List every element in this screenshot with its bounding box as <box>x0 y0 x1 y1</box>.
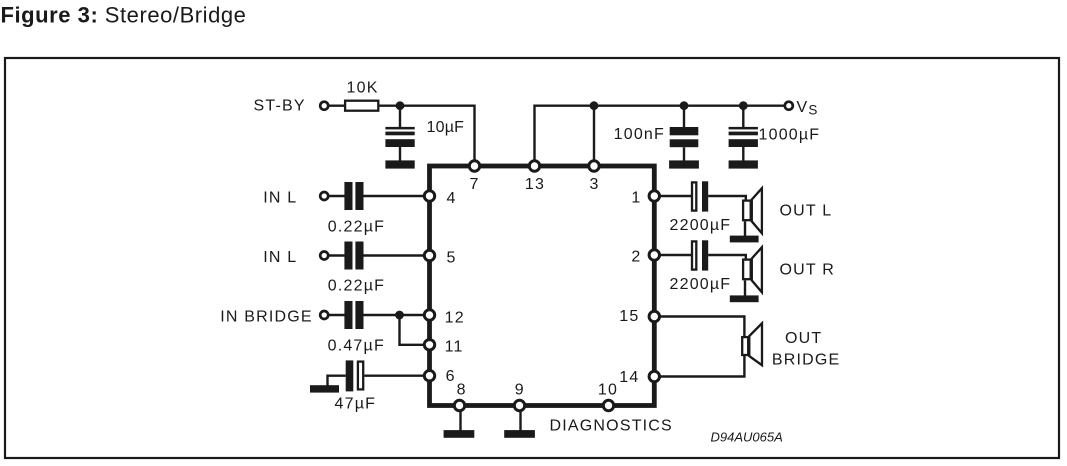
svg-text:13: 13 <box>525 176 545 193</box>
svg-text:D94AU065A: D94AU065A <box>711 430 783 445</box>
svg-text:OUT R: OUT R <box>780 262 835 279</box>
terminal IN BRIDGE <box>320 311 328 319</box>
capacitor 2200uF (OUT L) <box>692 182 696 210</box>
wire junction to pin 11 <box>400 315 426 345</box>
pin 11 <box>424 340 434 350</box>
svg-text:10: 10 <box>598 381 618 398</box>
wire 47uF to pin 6 <box>364 375 425 377</box>
capacitor 1000uF <box>729 127 758 129</box>
wire 1000uF to ground <box>742 147 744 161</box>
svg-text:8: 8 <box>457 382 467 399</box>
wire pin 13 to rail <box>535 106 595 166</box>
junction rail / 100nF <box>680 101 689 110</box>
ground speaker OUT R <box>730 295 759 302</box>
wire pin 15 to bridge speaker <box>659 317 744 337</box>
capacitor 2200uF (OUT R) <box>692 241 696 269</box>
wire pin 2 to cap <box>659 254 691 256</box>
svg-text:4: 4 <box>447 190 457 207</box>
pin 14 <box>649 371 659 381</box>
ground pin 9 <box>504 430 535 438</box>
wire speaker OUT L to ground <box>744 221 746 236</box>
wire IN BRIDGE to cap <box>328 314 345 316</box>
pin 10 <box>603 400 613 410</box>
ground 10uF <box>385 160 414 168</box>
wire pin 9 to ground <box>519 410 521 431</box>
wire pin 8 to ground <box>459 410 461 431</box>
svg-text:2200µF: 2200µF <box>670 217 732 234</box>
svg-text:2200µF: 2200µF <box>670 276 732 293</box>
junction bridge input <box>395 311 404 320</box>
wire rail to pin 3 <box>593 106 595 166</box>
junction rail / 1000uF <box>739 101 748 110</box>
capacitor 0.22uF (lower) <box>344 242 352 270</box>
wire cap to speaker OUT L <box>708 196 746 201</box>
junction rail / pin 3 <box>590 101 599 110</box>
speaker OUT BRIDGE <box>749 323 762 365</box>
wire pin 14 to bridge speaker <box>659 356 744 377</box>
svg-text:47µF: 47µF <box>335 395 377 412</box>
svg-text:100nF: 100nF <box>614 126 665 143</box>
pin 4 <box>424 191 434 201</box>
svg-text:0.47µF: 0.47µF <box>328 338 385 355</box>
wire ST-BY to resistor <box>328 104 345 106</box>
wire IN L to cap <box>328 195 345 197</box>
wire cap to speaker OUT R <box>708 255 746 260</box>
svg-text:15: 15 <box>619 308 639 325</box>
terminal IN L (left) <box>320 192 328 200</box>
pin 7 <box>469 161 479 171</box>
svg-text:IN L: IN L <box>263 249 297 266</box>
wire pin 1 to cap <box>659 195 691 197</box>
wire rail to 100nF <box>683 106 685 128</box>
svg-text:1000µF: 1000µF <box>759 126 821 143</box>
wire resistor to pin 7 <box>379 106 474 166</box>
svg-text:Figure 3: Stereo/Bridge: Figure 3: Stereo/Bridge <box>1 3 247 28</box>
svg-text:0.22µF: 0.22µF <box>328 218 385 235</box>
terminal ST-BY <box>320 102 328 110</box>
ground 100nF <box>669 160 699 168</box>
speaker OUT L <box>752 188 762 233</box>
capacitor 47uF <box>346 360 354 391</box>
wire ground to 47uF <box>328 376 346 387</box>
ground 47uF <box>310 385 339 392</box>
svg-text:1: 1 <box>631 190 641 207</box>
wire IN R to cap <box>328 254 345 256</box>
pin 12 <box>424 310 434 320</box>
svg-text:0.22µF: 0.22µF <box>328 277 385 294</box>
resistor 10K <box>345 101 378 111</box>
svg-text:OUT: OUT <box>785 330 822 347</box>
wire 100nF to ground <box>683 147 685 161</box>
svg-text:IN L: IN L <box>263 190 297 207</box>
svg-text:5: 5 <box>447 250 457 267</box>
capacitor 10uF <box>385 127 414 129</box>
svg-text:10K: 10K <box>347 80 379 97</box>
svg-text:DIAGNOSTICS: DIAGNOSTICS <box>550 418 673 435</box>
capacitor 0.22uF (upper) <box>344 182 352 210</box>
svg-text:OUT L: OUT L <box>780 203 833 220</box>
wire Vs rail <box>594 104 785 106</box>
ground pin 8 <box>444 430 475 438</box>
pin 3 <box>589 161 599 171</box>
svg-text:7: 7 <box>469 176 479 193</box>
speaker OUT R <box>752 247 762 292</box>
IC power amplifier body <box>430 166 655 406</box>
svg-text:10µF: 10µF <box>427 119 465 136</box>
wire rail to 1000uF <box>742 106 744 128</box>
svg-text:9: 9 <box>515 382 525 399</box>
terminal IN L (right ch) <box>320 252 328 260</box>
svg-text:11: 11 <box>445 338 464 355</box>
pin 2 <box>649 250 659 260</box>
svg-text:2: 2 <box>631 249 641 266</box>
wire cap to pin 5 <box>363 254 425 256</box>
pin 1 <box>649 191 659 201</box>
svg-text:ST-BY: ST-BY <box>254 98 306 115</box>
ground 1000uF <box>729 160 758 168</box>
svg-text:12: 12 <box>445 309 465 326</box>
junction ST-BY / 10uF <box>396 101 405 110</box>
pin 8 <box>454 400 464 410</box>
wire cap to pin 12 <box>363 314 425 316</box>
svg-text:BRIDGE: BRIDGE <box>772 352 841 369</box>
terminal VS <box>785 102 793 110</box>
pin 9 <box>514 400 524 410</box>
wire cap to pin 4 <box>363 195 425 197</box>
svg-text:6: 6 <box>446 368 456 385</box>
ground speaker OUT L <box>730 236 759 243</box>
pin 5 <box>424 250 434 260</box>
wire speaker OUT R to ground <box>744 280 746 296</box>
wire junction to 10uF <box>399 106 401 128</box>
capacitor 0.47uF <box>344 301 352 329</box>
capacitor 100nF <box>670 127 699 135</box>
svg-text:VS: VS <box>797 99 819 118</box>
pin 15 <box>649 311 659 321</box>
pin 13 <box>529 161 539 171</box>
wire 10uF to ground <box>399 147 401 161</box>
svg-text:14: 14 <box>619 369 639 386</box>
pin 6 <box>424 371 434 381</box>
svg-text:IN BRIDGE: IN BRIDGE <box>220 308 313 325</box>
svg-text:3: 3 <box>589 176 599 193</box>
